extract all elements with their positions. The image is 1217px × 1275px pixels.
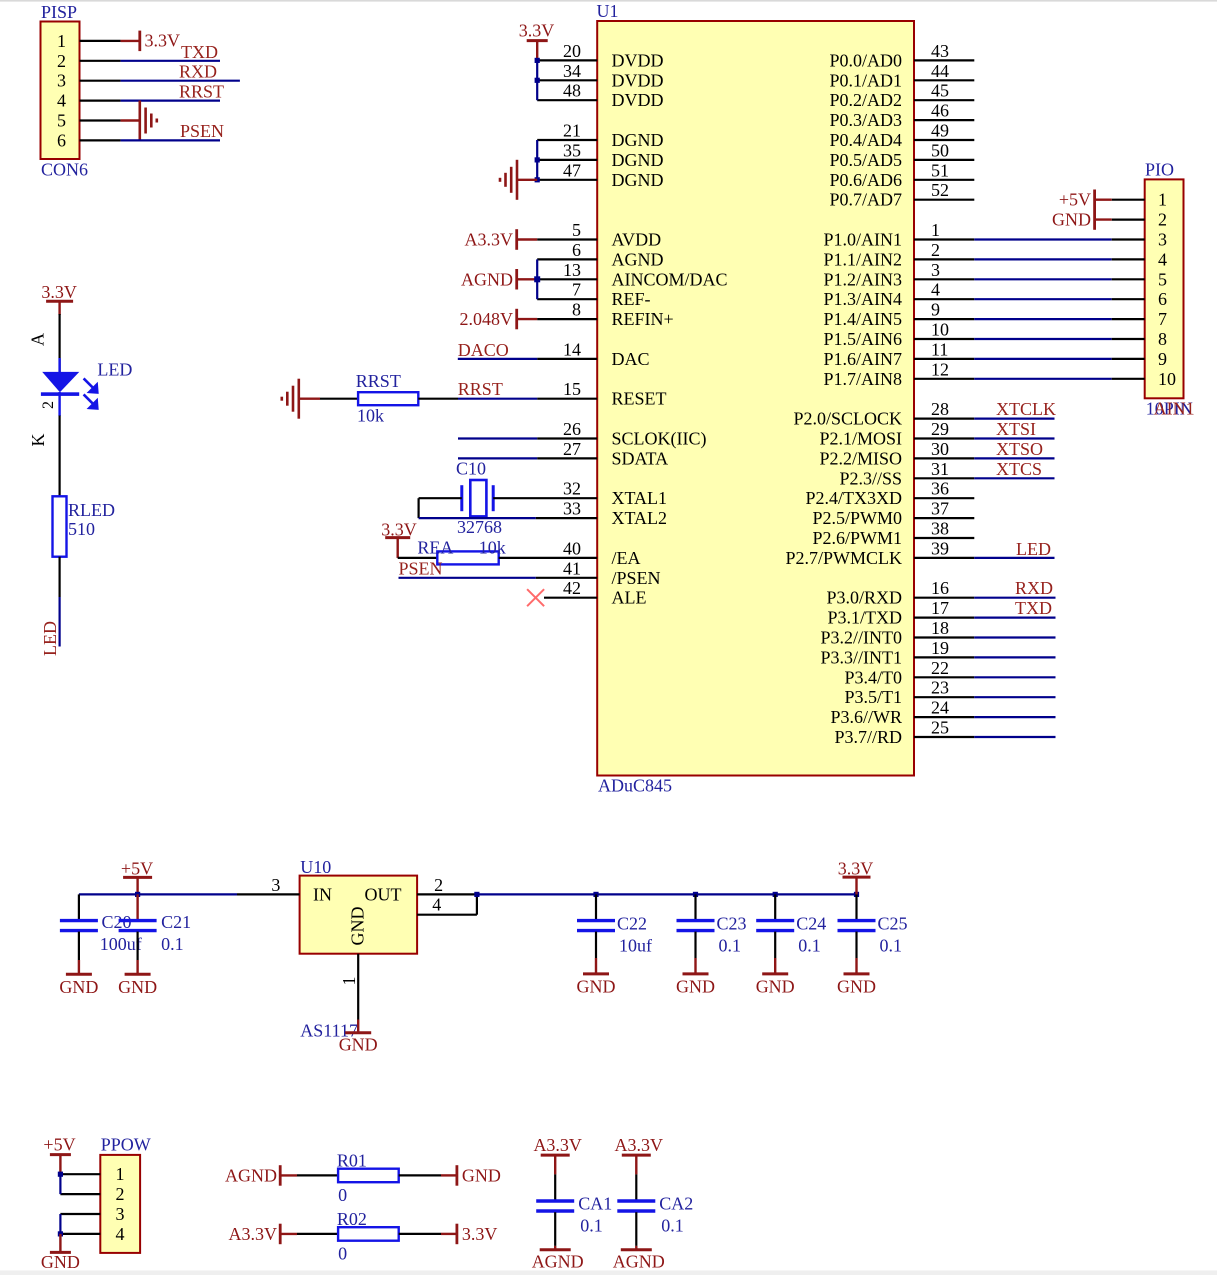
U1 pin 44 stub wire [914,79,974,81]
svg-text:REA: REA [417,537,453,557]
wire ALE stub [544,597,597,599]
svg-text:+5V: +5V [121,859,153,879]
wire C25 to GND [855,932,857,958]
svg-text:3.3V: 3.3V [145,30,181,50]
svg-text:XTCS: XTCS [996,459,1042,479]
svg-text:28: 28 [931,399,949,419]
wire net XTCLK [974,418,1054,420]
wire C20 to GND [78,932,80,960]
U1 pin 29 stub wire [914,437,974,439]
svg-text:9: 9 [1158,349,1167,369]
svg-text:4: 4 [1158,249,1167,269]
wire 3.3V to REA resistor [398,557,438,559]
wire AVDD stub [537,238,597,240]
svg-text:13: 13 [563,260,581,280]
svg-text:AGND: AGND [613,1251,665,1271]
wire net at U1 P3.0 [974,597,1055,599]
svg-text:P2.4/TX3XD: P2.4/TX3XD [805,488,902,508]
wire U10 GND pin 1 [357,954,359,1020]
wire net DACO [458,358,537,360]
U1 pin 4 stub wire [914,298,974,300]
U1 pin 39 stub wire [914,557,974,559]
svg-text:P3.5/T1: P3.5/T1 [844,687,902,707]
svg-text:32: 32 [563,479,581,499]
svg-text:29: 29 [931,419,949,439]
svg-text:A3.3V: A3.3V [465,230,514,250]
resistor REA body [437,551,498,564]
wire down to C20 [78,894,80,920]
svg-text:AINCOM/DAC: AINCOM/DAC [612,269,728,289]
junction dot OUT [474,892,479,897]
svg-text:2: 2 [116,1184,125,1204]
wire PPOW pin4 to GND [59,1234,61,1253]
svg-text:P1.5/AIN6: P1.5/AIN6 [823,329,902,349]
PIO pin 9 wire [1112,358,1145,360]
svg-text:47: 47 [563,160,581,180]
svg-text:12: 12 [931,359,949,379]
ground symbol at PISP pin5 [140,101,157,141]
U1 pin 9 stub wire [914,318,974,320]
wire net U1 P1.1 to PIO [974,258,1111,260]
PIO pin 1 wire [1112,199,1145,201]
svg-text:6: 6 [1158,289,1167,309]
wire net U1 P1.2 to PIO [974,278,1111,280]
wire DAC stub [537,358,597,360]
svg-text:10uf: 10uf [619,936,652,956]
svg-text:22: 22 [931,658,949,678]
svg-text:C24: C24 [796,914,826,934]
svg-text:6: 6 [572,240,581,260]
junction dot at C23 [693,892,698,897]
svg-text:ALE: ALE [612,588,647,608]
svg-text:45: 45 [931,81,949,101]
resistor R01 body [338,1169,399,1183]
U1 pin 37 stub wire [914,517,974,519]
no-connect X at ALE [527,589,544,606]
ground GND below U10 [345,1031,371,1034]
LED light arrows [84,378,98,408]
svg-text:AGND: AGND [225,1165,277,1185]
PISP pin 1 wire [80,40,121,42]
svg-text:GND: GND [339,1034,378,1054]
top window edge line [0,0,1217,2]
svg-text:46: 46 [931,101,949,121]
U1 pin 38 stub wire [914,537,974,539]
svg-text:P1.0/AIN1: P1.0/AIN1 [823,230,902,250]
wire net U1 P1.7 to PIO [974,378,1111,380]
wire A3.3V to R02 [280,1233,297,1235]
svg-text:49: 49 [931,121,949,141]
svg-text:RXD: RXD [1015,578,1053,598]
svg-text:P3.6//WR: P3.6//WR [830,707,902,727]
junction dot DVDD bus 1 [535,58,540,63]
svg-text:34: 34 [563,61,581,81]
wire LED cathode to RLED [58,416,60,497]
svg-text:P0.1/AD1: P0.1/AD1 [829,70,902,90]
wire U1 DGND pin stub row 6 [537,159,597,161]
PIO pin 10 wire [1112,378,1145,380]
svg-text:SCLOK(IIC): SCLOK(IIC) [612,429,707,450]
wire C23 to GND [694,932,696,958]
svg-text:2: 2 [57,51,66,71]
svg-text:16: 16 [931,578,949,598]
power port GND right of R01 [455,1165,458,1186]
wire net at U1 P3.5 [974,696,1055,698]
svg-text:19: 19 [931,638,949,658]
svg-text:P2.3//SS: P2.3//SS [839,468,902,488]
wire PPOW pins 3-4 bus [59,1214,61,1234]
junction dot at C22 [593,892,598,897]
svg-text:P0.3/AD3: P0.3/AD3 [829,110,902,130]
svg-text:DAC: DAC [612,349,650,369]
svg-text:C10: C10 [456,459,486,479]
svg-text:6: 6 [57,130,66,150]
svg-text:10k: 10k [357,406,384,426]
IC U1 ADuC845 body [597,21,914,776]
svg-text:P0.7/AD7: P0.7/AD7 [829,190,902,210]
svg-text:DVDD: DVDD [612,90,664,110]
wire PPOW pins 1-2 bus [59,1174,61,1194]
wire net U1 P1.0 to PIO [974,238,1111,240]
junction dot +5V rail [135,892,140,897]
svg-text:TXD: TXD [181,42,218,62]
svg-text:31: 31 [931,459,949,479]
capacitor C24 symbol [756,921,794,931]
svg-text:XTCLK: XTCLK [996,399,1056,419]
PPOW pin 2 wire [60,1193,100,1195]
capacitor CA1 symbol [536,1201,574,1211]
wire net U1 P1.6 to PIO [974,358,1111,360]
PISP pin 3 wire [80,80,121,82]
svg-text:8: 8 [572,300,581,320]
svg-text:P0.5/AD5: P0.5/AD5 [829,150,902,170]
svg-text:P1.7/AIN8: P1.7/AIN8 [823,369,902,389]
svg-text:4: 4 [57,91,66,111]
svg-text:7: 7 [1158,309,1167,329]
svg-text:3: 3 [116,1204,125,1224]
power port 3.3V at PISP pin1 [138,31,141,51]
svg-text:SDATA: SDATA [612,448,669,468]
svg-text:0.1: 0.1 [580,1215,603,1235]
U1 pin 28 stub wire [914,418,974,420]
capacitor C20 symbol [60,921,98,931]
U1 pin 17 stub wire [914,616,974,618]
svg-text:OUT: OUT [365,884,402,904]
ground symbol at RRST resistor [282,379,299,419]
svg-text:42: 42 [563,578,581,598]
wire REFIN+ stub [537,318,597,320]
svg-text:1: 1 [1158,190,1167,210]
U1 pin 24 stub wire [914,716,974,718]
svg-text:PSEN: PSEN [180,121,224,141]
U1 pin 31 stub wire [914,477,974,479]
wire net at U1 row 21 [458,457,537,459]
svg-text:3: 3 [271,875,280,895]
svg-text:48: 48 [563,81,581,101]
wire net U1 P1.4 to PIO [974,318,1111,320]
svg-text:DACO: DACO [458,340,509,360]
svg-text:P1.4/AIN5: P1.4/AIN5 [823,309,902,329]
junction dot at C25 [854,892,859,897]
junction dot AGND [534,276,540,282]
svg-text:3: 3 [57,71,66,91]
wire net RRST to U1 RESET [458,398,537,400]
wire A3.3V to CA2 [635,1174,637,1200]
svg-text:3: 3 [931,260,940,280]
svg-text:CA1: CA1 [578,1193,612,1213]
wire net PSEN to U1 [399,577,536,579]
U1 pin 18 stub wire [914,636,974,638]
svg-text:15: 15 [563,379,581,399]
U1 pin 36 stub wire [914,497,974,499]
wire net RRST from PISP pin4 [121,99,220,101]
svg-text:7: 7 [572,280,581,300]
svg-text:P3.0/RXD: P3.0/RXD [826,588,902,608]
svg-text:P2.7/PWMCLK: P2.7/PWMCLK [785,548,902,568]
svg-text:0.1: 0.1 [719,936,742,956]
svg-text:A: A [28,333,48,346]
wire net U1 P1.5 to PIO [974,338,1111,340]
svg-text:ADuC845: ADuC845 [598,776,672,796]
PIO pin 2 wire [1112,219,1145,221]
svg-text:1: 1 [931,220,940,240]
svg-text:23: 23 [931,678,949,698]
svg-text:GND: GND [837,976,876,996]
svg-text:510: 510 [68,519,95,539]
resistor RLED body [53,496,67,556]
svg-text:GND: GND [756,976,795,996]
svg-text:DGND: DGND [612,170,664,190]
svg-text:P3.1/TXD: P3.1/TXD [827,608,902,628]
U1 pin 1 stub wire [914,238,974,240]
connector PIO body [1145,179,1184,398]
ground GND below C21 [125,973,151,976]
PPOW pin 4 wire [60,1233,100,1235]
wire U1 DVDD pin stub row 2 [537,79,597,81]
wire +5V rail to U10 IN [79,893,237,895]
junction dot DGND bus 2 [535,177,540,182]
svg-text:DGND: DGND [612,150,664,170]
svg-text:9: 9 [931,300,940,320]
wire C21 to GND [137,932,139,960]
wire U1 DVDD pin stub row 1 [537,59,597,61]
svg-text:43: 43 [931,41,949,61]
PIO pin 7 wire [1112,318,1145,320]
svg-text:1: 1 [57,31,66,51]
svg-text:10: 10 [931,320,949,340]
wire stub row 20 [537,437,597,439]
U1 pin 2 stub wire [914,258,974,260]
svg-text:3: 3 [1158,230,1167,250]
svg-text:20: 20 [563,41,581,61]
ground GND below C23 [683,972,709,975]
U1 pin 25 stub wire [914,736,974,738]
svg-text:P1.3/AIN4: P1.3/AIN4 [823,289,902,309]
svg-text:REF-: REF- [612,289,651,309]
svg-text:DGND: DGND [612,130,664,150]
PISP pin 4 wire [80,99,121,101]
wire net TXD [121,60,220,62]
svg-text:RESET: RESET [612,389,667,409]
svg-text:2: 2 [434,875,443,895]
wire U1 DGND pin stub row 5 [537,139,597,141]
svg-text:2: 2 [1158,210,1167,230]
svg-text:P2.6/PWM1: P2.6/PWM1 [812,528,902,548]
regulator U10 body [300,876,418,954]
svg-text:IN: IN [313,884,332,904]
svg-text:2.048V: 2.048V [460,309,514,329]
svg-text:P2.5/PWM0: P2.5/PWM0 [812,508,902,528]
svg-text:18: 18 [931,618,949,638]
crystal C10 symbol [462,480,493,516]
capacitor C22 symbol [577,921,615,931]
wire RLED to LED net [58,557,60,597]
svg-text:AGND: AGND [612,249,664,269]
wire +5V stem to C21 [136,894,138,920]
wire rail to C22 [595,894,597,920]
wire PISP pin1 to 3.3V [121,40,140,42]
wire net LED [974,557,1054,559]
junction dot DVDD bus 2 [535,78,540,83]
wire C24 to GND [774,932,776,958]
svg-text:P2.0/SCLOCK: P2.0/SCLOCK [793,409,902,429]
svg-text:27: 27 [563,439,581,459]
wire net at U1 P3.3 [974,656,1055,658]
PIO pin 5 wire [1112,278,1145,280]
wire CA1 to AGND [554,1212,556,1246]
junction dot DGND bus 1 [535,157,540,162]
PIO pin 8 wire [1112,338,1145,340]
wire net XTCS [974,477,1054,479]
U1 pin 22 stub wire [914,676,974,678]
svg-text:11: 11 [931,339,948,359]
svg-text:4: 4 [116,1224,125,1244]
svg-text:LED: LED [97,359,132,379]
svg-text:30: 30 [931,439,949,459]
svg-text:50: 50 [931,140,949,160]
wire 3.3V DVDD bus [536,60,538,100]
svg-text:44: 44 [931,61,949,81]
svg-text:R02: R02 [337,1209,367,1229]
wire ground to RRST resistor [299,398,320,400]
capacitor C25 symbol [838,921,876,931]
U1 pin 12 stub wire [914,378,974,380]
wire net PSEN from PISP pin6 [121,139,220,141]
U1 pin 50 stub wire [914,159,974,161]
wire net XTSI [974,437,1054,439]
wire net at U1 P3.2 [974,636,1055,638]
ground GND below C20 [66,973,92,976]
svg-text:AIN1: AIN1 [1154,399,1195,419]
svg-text:0: 0 [338,1243,347,1263]
svg-text:A3.3V: A3.3V [533,1135,582,1155]
svg-text:GND: GND [118,977,157,997]
svg-text:51: 51 [931,160,949,180]
wire net XTSO [974,457,1054,459]
junction dot at C24 [773,892,778,897]
wire R01 to GND [399,1174,441,1176]
svg-text:P3.7//RD: P3.7//RD [834,727,902,747]
svg-text:GND: GND [462,1165,501,1185]
svg-text:10k: 10k [479,537,506,557]
PIO pin 4 wire [1112,258,1145,260]
svg-text:AGND: AGND [461,269,513,289]
power bar at PIO pins 1-2 [1093,190,1096,230]
U1 pin 19 stub wire [914,656,974,658]
wire C22 to GND [595,932,597,958]
wire rail to C23 [694,894,696,920]
PIO pin 3 wire [1112,238,1145,240]
svg-text:2: 2 [40,401,57,409]
resistor R02 body [338,1227,399,1241]
svg-text:38: 38 [931,519,949,539]
wire net at U1 row 20 [458,437,537,439]
ground GND below C25 [844,972,870,975]
power port AGND below CA1 [540,1248,571,1251]
U1 pin 3 stub wire [914,278,974,280]
svg-text:XTSI: XTSI [996,419,1036,439]
svg-text:AVDD: AVDD [612,230,662,250]
wire net at U1 P3.7 [974,736,1055,738]
wire U10 pin 4 [417,914,477,916]
U1 pin 11 stub wire [914,358,974,360]
wire crystal left leg [419,497,462,499]
power port AGND below CA2 [621,1248,652,1251]
svg-text:RRST: RRST [356,371,401,391]
wire ground to DGND bus [517,179,538,181]
svg-text:100uf: 100uf [100,934,142,954]
svg-text:P3.4/T0: P3.4/T0 [844,667,902,687]
svg-text:TXD: TXD [1015,598,1052,618]
svg-text:RRST: RRST [458,379,503,399]
wire XTAL2 stub [536,517,597,519]
wire stub row 21 [537,457,597,459]
svg-text:U10: U10 [300,857,331,877]
U1 pin 10 stub wire [914,338,974,340]
svg-text:17: 17 [931,598,949,618]
svg-text:CON6: CON6 [41,160,88,180]
svg-text:33: 33 [563,499,581,519]
svg-text:K: K [28,434,48,447]
svg-text:4: 4 [432,895,441,915]
ground symbol at U1 DGND [500,160,517,200]
wire 3.3V to LED anode [58,314,60,373]
svg-text:PPOW: PPOW [101,1135,151,1155]
U1 pin 43 stub wire [914,59,974,61]
ground GND below C24 [762,972,788,975]
svg-text:GND: GND [59,977,98,997]
U1 pin 30 stub wire [914,457,974,459]
svg-text:RLED: RLED [68,500,115,520]
svg-text:GND: GND [676,976,715,996]
wire U1 DVDD pin stub row 3 [537,99,597,101]
U1 pin 51 stub wire [914,179,974,181]
svg-text:3.3V: 3.3V [838,858,874,878]
svg-text:14: 14 [563,339,581,359]
svg-text:10: 10 [1158,369,1176,389]
PIO pin 6 wire [1112,298,1145,300]
svg-text:24: 24 [931,698,949,718]
wire DGND bus [536,140,538,180]
wire rail to C25 [855,894,857,920]
wire U10 OUT pin 2 [417,893,478,895]
svg-text:0.1: 0.1 [880,936,903,956]
svg-text:XTSO: XTSO [996,439,1043,459]
svg-text:CA2: CA2 [659,1193,693,1213]
svg-text:P3.3//INT1: P3.3//INT1 [820,647,902,667]
svg-text:DVDD: DVDD [612,50,664,70]
svg-text:0: 0 [338,1185,347,1205]
